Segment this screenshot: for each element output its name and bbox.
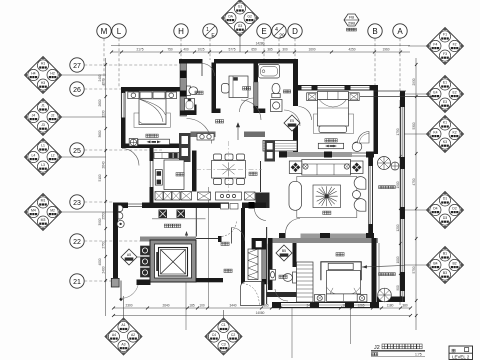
bedroom2 door arc (286, 219, 301, 234)
marker A5 leader (137, 256, 141, 258)
masterbath right wall lower (293, 120, 298, 154)
kitchen top counter (154, 153, 179, 159)
grid bubble 21 (70, 274, 112, 288)
svg-text:3440: 3440 (229, 304, 236, 308)
title bottom line (371, 356, 425, 358)
svg-text:A2: A2 (131, 333, 135, 337)
svg-text:900: 900 (396, 285, 400, 291)
svg-text:1750: 1750 (396, 128, 400, 135)
corridor long wall left stub (113, 203, 128, 209)
svg-text:F4: F4 (433, 42, 437, 46)
master door arc (299, 107, 312, 121)
grid bubble H (174, 24, 188, 60)
bedroom1 bed (139, 91, 166, 125)
svg-text:B4: B4 (433, 261, 437, 265)
meter boxes (141, 246, 150, 277)
grid bubble 1/E fraction (203, 24, 217, 60)
svg-text:1:75: 1:75 (415, 353, 422, 357)
svg-text:14280: 14280 (256, 41, 265, 45)
svg-text:21: 21 (73, 279, 81, 286)
pantry cabinet dark between dining and living (265, 141, 276, 162)
svg-text:L1: L1 (41, 143, 45, 147)
corridor mid wall left (191, 132, 216, 138)
svg-text:C3: C3 (221, 343, 225, 347)
garden/hall boundary line (195, 208, 197, 237)
svg-text:L2: L2 (51, 153, 55, 157)
corridor wall block (249, 202, 255, 209)
index diamond L (left 3) (25, 139, 107, 176)
svg-text:25: 25 (73, 148, 81, 155)
svg-text:29: 29 (279, 34, 285, 40)
svg-text:A5: A5 (127, 253, 131, 257)
masterbath bathtub (259, 65, 280, 79)
kitchen right wall (192, 151, 197, 192)
leader line elevator to bottom (185, 282, 187, 330)
bath2/wardrobe wall (293, 243, 297, 267)
balcony2 inner rail (378, 243, 380, 296)
svg-text:3600: 3600 (98, 130, 102, 137)
grid bubble 22 (70, 234, 140, 248)
svg-text:K1: K1 (443, 120, 447, 124)
svg-text:4: 4 (275, 27, 278, 33)
svg-text:G3: G3 (238, 24, 243, 28)
dining chairs bottom (214, 179, 245, 185)
study door arc (240, 98, 254, 112)
leader line bedroom2 to bottom (291, 307, 293, 358)
svg-text:E3: E3 (443, 100, 447, 104)
garden counter line (152, 218, 206, 220)
unit entry door frames (221, 204, 239, 210)
living rug (297, 177, 357, 218)
svg-text:M4: M4 (31, 208, 36, 212)
building entry door leaf (119, 281, 123, 302)
sideboard hatch (263, 144, 297, 149)
svg-text:2930: 2930 (412, 78, 416, 85)
svg-text:A3: A3 (121, 343, 125, 347)
entry wall stub (137, 280, 151, 286)
balcony plant big (378, 157, 391, 170)
entry leader arrow (185, 231, 188, 282)
bath2 bottom wall (266, 292, 298, 297)
bedroom2 wardrobe striped (297, 262, 314, 302)
svg-text:J4: J4 (32, 113, 36, 117)
room label bath1 (195, 91, 199, 94)
svg-text:M: M (101, 27, 108, 36)
svg-text:B3: B3 (443, 271, 447, 275)
living bottom wall (279, 234, 374, 239)
svg-text:2550: 2550 (101, 212, 105, 219)
master nightstand right (349, 93, 360, 101)
study right wall (254, 59, 259, 113)
elevator car inner box (159, 248, 188, 277)
svg-text:5100: 5100 (98, 174, 102, 181)
marker B5 (276, 245, 292, 261)
corridor long wall mid segment (242, 203, 266, 209)
hall top wall block (218, 236, 222, 242)
masterbath toilet (272, 83, 280, 97)
corridor mid wall right (244, 132, 265, 138)
svg-text:FB: FB (349, 15, 354, 20)
svg-text:1200: 1200 (396, 224, 400, 231)
kitchen fridge (155, 170, 162, 186)
svg-text:1025: 1025 (197, 48, 204, 52)
grid bubble 4/29 fraction (272, 24, 286, 60)
masterbath door arc (284, 110, 300, 126)
bath door leaf (201, 61, 203, 76)
living side table left (289, 161, 302, 174)
corridor door arc (241, 100, 261, 120)
bedroom2 bed (327, 263, 361, 301)
living side table right (351, 161, 364, 174)
svg-text:A1: A1 (121, 323, 125, 327)
kitchen sliding door (150, 161, 153, 187)
balcony bottom wall (377, 297, 405, 303)
svg-text:23: 23 (73, 200, 81, 207)
scale label (371, 353, 374, 356)
svg-text:27: 27 (73, 63, 81, 70)
kitchen island (164, 160, 184, 190)
master dresser (318, 143, 343, 148)
svg-text:22: 22 (73, 239, 81, 246)
corridor long wall left part (142, 203, 229, 209)
svg-text:C1: C1 (221, 323, 225, 327)
svg-text:M1: M1 (41, 198, 46, 202)
svg-text:4250: 4250 (348, 48, 355, 52)
living chair upper (354, 177, 366, 190)
hall dashed door arc (222, 222, 237, 237)
grid bubble 25 (70, 143, 162, 157)
svg-text:D: D (292, 27, 298, 36)
top dimension ticks (110, 51, 402, 54)
index diamond J (left 2) (25, 99, 107, 136)
bed pointer arrow (362, 265, 404, 268)
svg-text:300: 300 (282, 48, 288, 52)
room label entry garden (164, 224, 168, 227)
svg-text:K2: K2 (453, 130, 457, 134)
label balcony1 (379, 186, 382, 189)
grid bubble L (112, 24, 126, 88)
svg-text:2400: 2400 (101, 266, 105, 273)
master bed (317, 92, 348, 133)
svg-text:B1: B1 (443, 251, 447, 255)
svg-text:H3: H3 (41, 81, 45, 85)
bedroom2 bottom wall (272, 302, 379, 308)
bath1 toilet (187, 86, 198, 96)
index diamond K (right 3) (404, 116, 464, 153)
hall/bath wall line (266, 227, 268, 304)
svg-text:B: B (372, 27, 377, 36)
balcony door lines (352, 153, 366, 156)
masterbath bottom wall stub (258, 109, 266, 114)
bedroom1 left wall lower block (121, 118, 126, 149)
svg-text:1180: 1180 (387, 304, 394, 308)
room label masterbath (283, 90, 287, 93)
marker A5 (121, 249, 137, 265)
room label living (323, 211, 327, 214)
bedroom1 cabinet fan (129, 139, 137, 147)
svg-text:D2: D2 (452, 206, 456, 210)
bath2 sink (270, 270, 276, 281)
svg-text:LEVEL 2: LEVEL 2 (452, 354, 470, 359)
sideboard wall above living (263, 141, 297, 152)
kitchen tall cabinet dark (179, 133, 191, 162)
svg-text:K4: K4 (433, 130, 437, 134)
hall bottom wall segment (196, 278, 223, 282)
bath wall stub (192, 105, 197, 116)
grid bubble 27 (70, 58, 178, 72)
unit entry door arc (231, 228, 244, 241)
corridor cabinet with basins (197, 134, 214, 141)
bath1 sink (185, 99, 195, 111)
bath top outer wall (179, 59, 203, 64)
svg-text:26: 26 (73, 87, 81, 94)
hall top wall thin (196, 238, 218, 240)
svg-text:2175: 2175 (136, 48, 143, 52)
svg-text:385: 385 (267, 48, 273, 52)
svg-text:5750: 5750 (412, 266, 416, 273)
grid bubble E (257, 24, 271, 60)
bath2 toilet (283, 272, 296, 283)
room label bath2 (279, 275, 283, 278)
master nightstand left (307, 93, 318, 101)
bedroom1 dresser (138, 139, 170, 144)
living chaise (289, 181, 302, 210)
room label kitchen (176, 173, 180, 176)
svg-text:3230: 3230 (101, 110, 105, 117)
svg-text:2640: 2640 (101, 161, 105, 168)
svg-text:A: A (397, 27, 403, 36)
svg-text:H4: H4 (31, 71, 35, 75)
svg-text:D1: D1 (443, 196, 447, 200)
hall right wall (241, 240, 245, 284)
dining centerpiece (221, 163, 236, 176)
svg-text:K3: K3 (443, 140, 447, 144)
dining right boundary line (260, 161, 262, 192)
svg-text:G1: G1 (238, 4, 243, 8)
svg-text:185: 185 (189, 304, 195, 308)
bath2 door arc (275, 289, 288, 301)
room label dining (249, 172, 253, 175)
svg-text:OA: OA (228, 14, 234, 18)
hex symbol FB/29B (344, 14, 359, 31)
svg-text:1000: 1000 (396, 256, 400, 263)
svg-text:1570: 1570 (101, 78, 105, 85)
svg-text:A4: A4 (112, 333, 116, 337)
svg-text:1: 1 (206, 27, 209, 33)
bedroom1 nightstand right (166, 92, 177, 99)
dining chairs top (214, 154, 245, 160)
svg-text:J1: J1 (41, 103, 45, 107)
label balcony2 (379, 273, 382, 276)
svg-text:2640: 2640 (162, 304, 169, 308)
bedroom2 nightstand right (357, 295, 367, 302)
bedroom1 bottom wall (121, 144, 184, 149)
living rug star panel (313, 185, 341, 208)
room label master bedroom (325, 139, 329, 142)
level box (449, 346, 473, 360)
index diamond G (top center) (222, 0, 259, 52)
svg-text:2300: 2300 (125, 304, 132, 308)
svg-text:M2: M2 (50, 208, 55, 212)
grid bubble B (368, 24, 382, 96)
entry garden wall lamps (117, 205, 124, 227)
bedroom1 door arc (187, 119, 212, 144)
entry left wall foot block (111, 278, 119, 287)
dining table (212, 161, 246, 179)
svg-text:14080: 14080 (256, 311, 265, 315)
zigzag wardrobe hall (248, 249, 258, 280)
living chair table (353, 191, 361, 199)
living top wall balcony door gap (352, 151, 366, 158)
masterbath right wall upper (293, 59, 298, 106)
title underline bar (371, 350, 425, 352)
living bottom wall blocks (279, 233, 374, 239)
svg-text:2750: 2750 (101, 241, 105, 248)
dining centerlines (196, 141, 262, 197)
marker E5 (284, 115, 300, 131)
bath right wall (212, 63, 217, 110)
left dimension numbers (rotated) (98, 74, 106, 273)
living/balcony window wall (368, 157, 373, 233)
svg-text:5775: 5775 (228, 48, 235, 52)
elevator hall top wall hatched (140, 237, 196, 242)
svg-text:750: 750 (167, 48, 173, 52)
svg-text:C4: C4 (212, 333, 216, 337)
balcony2 fan plant (378, 288, 392, 302)
index diamond H (left 1) (25, 57, 107, 94)
room label study (243, 87, 247, 90)
svg-text:L3: L3 (41, 163, 45, 167)
garden floor boxes (159, 210, 186, 219)
leader line bedroom2 right to title (350, 307, 352, 344)
index diamond E (right 2) (404, 76, 464, 113)
building entry door arc (121, 281, 139, 299)
wall bedroom1/bath black blocks (180, 71, 187, 97)
hall door arc (254, 208, 266, 221)
study chair (222, 84, 230, 94)
bedroom2 top wall hatched (268, 238, 378, 243)
svg-text:F1: F1 (443, 32, 447, 36)
label entrance (221, 242, 225, 245)
room label bedroom1 (146, 134, 150, 137)
svg-text:J2: J2 (374, 345, 380, 351)
balcony plant small (391, 162, 399, 170)
living sofa (302, 160, 351, 176)
grid bubble 26 (70, 82, 121, 96)
svg-text:E5: E5 (290, 119, 294, 123)
svg-text:L4: L4 (32, 153, 36, 157)
svg-text:G2: G2 (247, 14, 252, 18)
study bottom wall stub (212, 109, 221, 114)
svg-text:J3: J3 (41, 123, 45, 127)
bedroom2 bed canopy (321, 262, 361, 280)
grid bubble 23 (70, 195, 113, 209)
entry left door arc (122, 149, 139, 166)
svg-text:380: 380 (402, 304, 408, 308)
hall niche corner block (252, 238, 268, 250)
master right wall (374, 85, 379, 154)
svg-text:D3: D3 (443, 216, 447, 220)
svg-text:4750: 4750 (412, 178, 416, 185)
svg-text:650: 650 (251, 48, 257, 52)
index diamond D (right 4) (404, 192, 464, 229)
elevator door rail (156, 252, 158, 271)
top-right boundary line2 (374, 90, 406, 92)
svg-text:F2: F2 (453, 42, 457, 46)
svg-text:1960: 1960 (382, 48, 389, 52)
kitchen left wall upper block (150, 148, 154, 161)
corridor arrow leader (236, 123, 239, 140)
svg-text:2600: 2600 (98, 99, 102, 106)
living top wall (279, 152, 374, 157)
svg-text:B2: B2 (453, 261, 457, 265)
index diamond M (left 4) (25, 194, 114, 231)
bottom dimension chain (113, 307, 410, 309)
grid bubble M (97, 24, 111, 88)
entry left wall (113, 203, 118, 282)
unit entry door leaf (230, 228, 232, 244)
svg-text:E: E (261, 27, 266, 36)
svg-text:5300: 5300 (412, 122, 416, 129)
room label bedroom2 (336, 253, 340, 256)
living bottom wall door gap (286, 233, 301, 240)
study desk (229, 76, 248, 98)
grid bubble D (288, 24, 302, 60)
master top window wall (295, 85, 378, 90)
svg-text:F3: F3 (443, 52, 447, 56)
svg-text:C2: C2 (231, 333, 235, 337)
svg-text:4000: 4000 (98, 258, 102, 265)
elevator shaft walls (150, 240, 196, 282)
grid bubble A (393, 24, 407, 96)
living top wall blocks (279, 152, 374, 158)
living chair lower (354, 199, 366, 212)
bedroom2 left bath wall (268, 238, 273, 290)
label foyer (224, 269, 228, 272)
bedroom1 top wall (121, 87, 181, 92)
svg-text:400: 400 (183, 48, 189, 52)
bedroom2 nightstand left (315, 295, 325, 302)
left vertical dimension chain (105, 58, 107, 316)
bath bottom wall (180, 111, 196, 116)
master rug (314, 114, 354, 134)
svg-text:D4: D4 (433, 206, 437, 210)
svg-text:100: 100 (199, 304, 205, 308)
wall bedroom1/bath gray (180, 62, 187, 116)
master fan chair (358, 132, 370, 144)
counter xbox row (155, 192, 255, 201)
svg-text:H: H (178, 27, 184, 36)
top outer wall study (214, 59, 298, 64)
bedroom1 left wall upper block (121, 87, 126, 93)
bedroom1 rug (134, 113, 170, 127)
svg-text:E2: E2 (453, 90, 457, 94)
svg-text:1900: 1900 (396, 181, 400, 188)
master corner chair (352, 142, 362, 152)
bath door arc (202, 64, 215, 77)
garden door leaf (128, 204, 142, 207)
index diamond A (bottom 1) (105, 296, 142, 355)
svg-text:29B: 29B (348, 21, 355, 26)
bedroom1 nightstand left (128, 92, 139, 99)
right vertical dimension chain (399, 100, 401, 305)
hall niche block (256, 193, 270, 209)
svg-text:E4: E4 (433, 90, 437, 94)
bedroom2 right wall (372, 238, 377, 308)
room label corridor (216, 120, 220, 123)
svg-text:L: L (117, 27, 122, 36)
hall piano (241, 282, 265, 306)
